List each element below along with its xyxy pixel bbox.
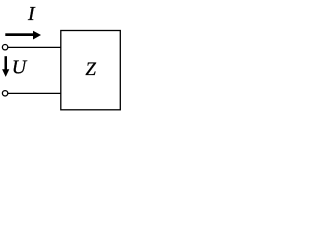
voltage arrow U [2, 56, 9, 77]
svg-text:U: U [12, 56, 28, 78]
current arrow I [5, 31, 41, 40]
svg-text:Z: Z [85, 59, 96, 80]
terminal (top, node a) [2, 45, 7, 50]
svg-text:I: I [27, 3, 36, 25]
terminal (bottom, node b) [2, 91, 7, 96]
impedance Z (two-terminal element box) [61, 31, 121, 110]
wire (top lead to Z) [8, 46, 62, 48]
wire (bottom lead to Z) [8, 92, 62, 94]
